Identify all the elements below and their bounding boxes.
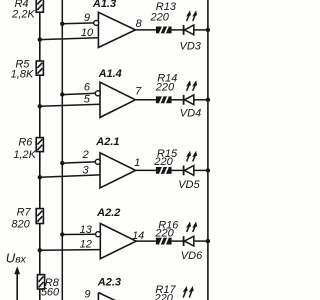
LED VD3 — [184, 10, 198, 35]
wire: LED VD3 to supply bus — [194, 29, 208, 31]
svg-text:13: 13 — [80, 224, 93, 236]
svg-text:5: 5 — [84, 94, 91, 106]
wire: A1.4 output to R14 — [135, 99, 156, 101]
svg-text:220: 220 — [150, 12, 170, 24]
wire: input bus to inverting input pin 6 — [62, 93, 96, 94]
node: junction dot on input bus, pin 9 — [60, 22, 64, 26]
resistor R4 2,2K — [36, 0, 43, 12]
svg-text:VD5: VD5 — [178, 179, 200, 191]
wire: R14 to LED VD4 — [172, 99, 184, 101]
inversion bubble at pin 13 of A2.2 — [96, 232, 101, 237]
wire: input bus to inverting input pin 9 — [62, 22, 94, 25]
wire: A2.1 output to R15 — [136, 169, 156, 171]
svg-text:12: 12 — [80, 238, 92, 250]
svg-text:820: 820 — [11, 219, 30, 231]
wire: R16 to LED VD6 — [172, 240, 184, 242]
node: junction dot on supply bus, row A2.1 — [206, 168, 210, 172]
svg-text:6: 6 — [84, 81, 91, 93]
wire: LED VD4 to supply bus — [194, 99, 208, 101]
inversion bubble at pin 9 of A1.3 — [94, 20, 99, 25]
wire: resistor divider chain vertical line — [39, 0, 41, 300]
node: junction dot on divider chain, pin 5 — [38, 104, 42, 108]
wire: LED VD6 to supply bus — [194, 240, 208, 242]
node: junction dot on divider chain, pin 12 — [38, 248, 42, 252]
svg-text:VD3: VD3 — [179, 40, 201, 52]
inversion bubble at pin 2 of A2.1 — [95, 159, 100, 164]
wire: R15 to LED VD5 — [172, 169, 184, 171]
op-amp A2.3 (partially visible at bottom edge) — [98, 293, 116, 300]
resistor R13 220 — [156, 27, 172, 34]
wire: input bus to inverting input pin 2 — [62, 162, 97, 163]
svg-text:A2.3: A2.3 — [97, 276, 121, 288]
node: junction dot on input bus, pin 6 — [60, 92, 64, 96]
node: junction dot on supply bus, row A1.3 — [206, 28, 210, 32]
node: junction dot on divider chain, pin 3 — [38, 175, 42, 179]
LED VD4 — [184, 80, 198, 105]
svg-text:9: 9 — [84, 289, 90, 300]
wire: input signal bus vertical line — [61, 0, 63, 300]
resistor R7 820 — [36, 209, 43, 224]
LED VD6 — [184, 222, 198, 247]
op-amp A1.3 — [98, 12, 135, 47]
svg-text:560: 560 — [41, 287, 60, 299]
svg-text:R7: R7 — [17, 206, 32, 218]
svg-text:220: 220 — [154, 293, 174, 300]
resistor R6 1,2K — [36, 138, 43, 152]
svg-text:220: 220 — [153, 156, 173, 168]
resistor R15 220 — [156, 167, 172, 174]
wire: right supply bus vertical line — [207, 0, 209, 300]
op-amp A1.4 — [100, 82, 135, 117]
resistor R14 220 — [156, 96, 172, 103]
input terminal arrow for Uвх — [14, 266, 20, 300]
svg-text:3: 3 — [82, 165, 89, 177]
svg-text:1: 1 — [134, 157, 140, 169]
svg-text:A1.4: A1.4 — [98, 68, 122, 80]
svg-text:14: 14 — [132, 230, 144, 242]
svg-text:10: 10 — [81, 27, 94, 39]
svg-text:Uвх: Uвх — [6, 251, 27, 266]
svg-text:2: 2 — [82, 149, 89, 161]
wire: divider tap to non-inverting input pin 5 — [40, 104, 100, 106]
node: junction dot on supply bus, row A1.4 — [206, 98, 210, 102]
wire: divider tap to non-inverting input pin 12 — [40, 249, 101, 252]
svg-text:R6: R6 — [18, 137, 33, 149]
op-amp A2.1 — [100, 153, 136, 188]
svg-text:VD4: VD4 — [180, 108, 201, 120]
wire: LED VD5 to supply bus — [194, 169, 208, 171]
svg-text:8: 8 — [136, 18, 143, 30]
svg-text:A2.2: A2.2 — [96, 207, 120, 219]
inversion bubble at pin 6 of A1.4 — [95, 91, 100, 96]
svg-text:A1.3: A1.3 — [92, 0, 116, 10]
svg-text:1,2K: 1,2K — [13, 149, 36, 161]
resistor R5 1,8K — [36, 61, 43, 75]
node: junction dot on input bus, pin 2 — [60, 161, 64, 165]
node: junction dot on divider chain, pin 10 — [38, 37, 42, 41]
wire: input bus to inverting input pin 13 — [62, 233, 96, 235]
LED VD7 light arrows (partially visible at bottom edge) — [183, 286, 194, 298]
svg-text:220: 220 — [155, 82, 175, 94]
LED VD5 — [184, 151, 198, 176]
wire: divider tap to non-inverting input pin 3 — [40, 175, 100, 177]
op-amp A2.2 — [100, 224, 136, 259]
wire: A2.2 output to R16 — [136, 240, 156, 242]
svg-text:A2.1: A2.1 — [95, 136, 119, 148]
svg-text:7: 7 — [135, 85, 142, 97]
wire: A1.3 output to R13 — [135, 29, 156, 31]
svg-text:2,2K: 2,2K — [11, 9, 35, 21]
svg-text:1,8K: 1,8K — [11, 69, 34, 81]
svg-text:9: 9 — [84, 12, 90, 24]
svg-text:220: 220 — [154, 227, 174, 239]
resistor R8 560 — [37, 275, 44, 289]
node: junction dot on supply bus, row A2.2 — [206, 239, 210, 243]
wire: divider tap to non-inverting input pin 10 — [40, 38, 99, 40]
svg-text:VD6: VD6 — [181, 250, 203, 262]
resistor R16 220 — [156, 238, 172, 245]
node: junction dot on input bus, pin 13 — [60, 232, 64, 236]
wire: R13 to LED VD3 — [172, 29, 184, 31]
